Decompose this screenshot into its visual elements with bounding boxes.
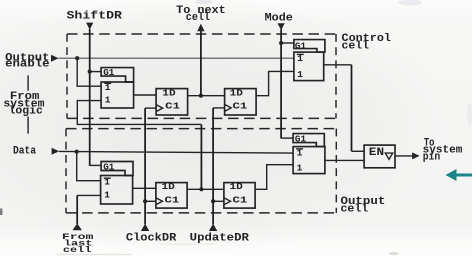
- svg-text:C1: C1: [233, 100, 248, 111]
- svg-text:1D: 1D: [162, 87, 176, 98]
- svg-text:EN: EN: [369, 147, 384, 159]
- svg-text:cell: cell: [341, 204, 369, 216]
- svg-text:cell: cell: [342, 41, 370, 53]
- svg-text:C1: C1: [233, 194, 248, 205]
- svg-text:G1: G1: [103, 161, 114, 172]
- svg-text:UpdateDR: UpdateDR: [190, 233, 250, 245]
- svg-text:ClockDR: ClockDR: [126, 233, 177, 245]
- svg-text:pin: pin: [423, 151, 441, 163]
- svg-text:Mode: Mode: [265, 12, 293, 24]
- svg-text:1: 1: [297, 69, 303, 80]
- svg-text:logic: logic: [9, 106, 43, 118]
- svg-text:G1: G1: [295, 133, 306, 144]
- svg-text:cell: cell: [63, 245, 92, 255]
- svg-text:1: 1: [297, 163, 303, 174]
- svg-text:enable: enable: [5, 59, 50, 71]
- svg-text:1D: 1D: [230, 181, 244, 192]
- svg-text:1: 1: [104, 190, 110, 201]
- svg-text:1D: 1D: [162, 181, 176, 192]
- svg-text:G1: G1: [103, 67, 114, 78]
- svg-text:1D: 1D: [230, 87, 244, 98]
- svg-text:ShiftDR: ShiftDR: [67, 11, 123, 23]
- svg-text:cell: cell: [186, 12, 210, 24]
- svg-text:1: 1: [105, 95, 111, 106]
- svg-text:C1: C1: [165, 194, 180, 205]
- svg-text:Data: Data: [13, 146, 37, 158]
- svg-text:G1: G1: [295, 40, 306, 51]
- svg-text:C1: C1: [165, 100, 180, 111]
